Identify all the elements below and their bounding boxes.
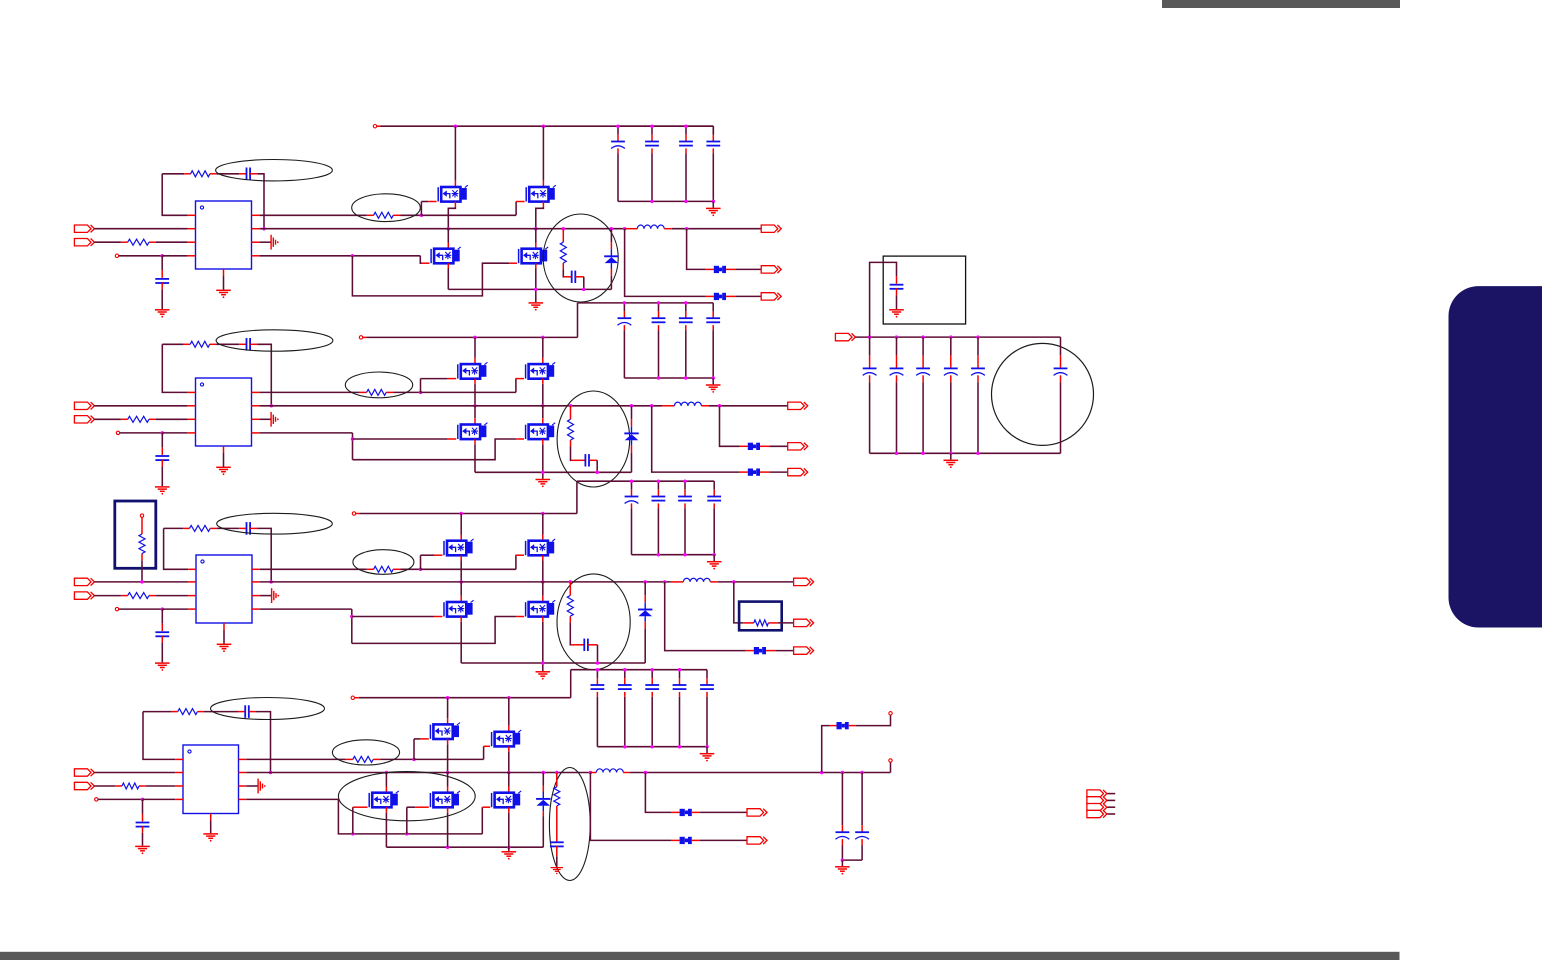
wire	[734, 582, 743, 623]
junction	[820, 771, 824, 775]
junction	[541, 336, 545, 340]
wire source Q33	[460, 617, 462, 664]
transistor Q42 (high-side)	[492, 730, 522, 746]
connector output 21	[788, 402, 808, 409]
junction	[596, 668, 600, 672]
transistor Q14 (low-side)	[519, 247, 549, 263]
capacitor C13 (snubber)	[572, 271, 576, 283]
wire	[571, 459, 585, 461]
wire	[353, 439, 517, 460]
wire	[583, 277, 585, 290]
wire	[623, 772, 630, 774]
transistor Q33 (low-side)	[444, 600, 474, 616]
wire	[922, 375, 924, 453]
wire	[156, 241, 188, 243]
wire	[380, 758, 414, 760]
junction	[650, 404, 654, 408]
wire gate Q32	[516, 555, 524, 569]
wire	[161, 636, 163, 663]
junction	[650, 668, 654, 672]
wire	[740, 445, 748, 447]
junction	[650, 124, 654, 128]
wire drain Q33	[460, 582, 462, 602]
junction	[685, 227, 689, 231]
wire	[162, 432, 187, 434]
wire	[712, 201, 714, 207]
junction	[630, 479, 634, 483]
resistor R35 (boxed)	[739, 602, 782, 631]
wire net UGATE3	[260, 568, 367, 570]
wire	[662, 405, 674, 407]
ground	[889, 310, 904, 318]
wire	[841, 839, 843, 860]
junction	[412, 758, 416, 762]
wire	[94, 785, 115, 787]
wire	[260, 595, 271, 597]
highlight ellipse (snubber)	[549, 768, 590, 881]
resistor R43 (gate)	[346, 756, 381, 762]
junction	[610, 227, 614, 231]
junction	[569, 404, 573, 408]
ground	[258, 779, 266, 794]
wire	[119, 608, 163, 610]
wire	[713, 503, 715, 554]
wire	[652, 406, 740, 472]
capacitor C56	[1060, 337, 1062, 368]
wire drain Q21	[474, 337, 476, 364]
wire	[143, 711, 171, 713]
junction	[447, 227, 451, 231]
junction	[562, 227, 566, 231]
big circle (highlight)	[992, 343, 1094, 445]
wire net PHASE2	[259, 405, 662, 407]
wire	[706, 747, 708, 753]
wire gate Q45	[482, 807, 490, 834]
transistor Q21 (high-side)	[458, 362, 488, 378]
wire	[569, 623, 572, 645]
wire gate Q11	[421, 202, 436, 216]
capacitor C2x3	[685, 303, 687, 318]
open node (fuse out)	[889, 712, 892, 715]
junction	[650, 200, 654, 204]
wire	[94, 405, 187, 407]
wire gate Q14	[509, 262, 517, 264]
diode D21	[624, 426, 638, 445]
wire	[778, 622, 794, 624]
connector	[835, 333, 855, 340]
wire	[564, 276, 572, 278]
wire gate Q44	[407, 807, 429, 834]
resistor R41 (feedback)	[171, 709, 203, 715]
wire	[259, 418, 270, 420]
highlight ellipse	[352, 194, 421, 222]
ground	[502, 852, 517, 860]
ground	[706, 385, 721, 393]
connector output 43	[747, 837, 767, 844]
ground	[835, 867, 850, 875]
wire	[712, 126, 714, 135]
open node EN1	[115, 254, 118, 257]
junction	[405, 832, 409, 836]
wire	[769, 471, 787, 473]
capacitor C44	[836, 832, 850, 839]
capacitor C3x4	[713, 481, 715, 496]
connector output 32	[794, 619, 814, 626]
wire	[223, 630, 225, 644]
junction	[542, 124, 546, 128]
ground	[551, 868, 563, 875]
ground	[529, 303, 544, 311]
capacitor C54	[950, 337, 952, 368]
junction	[684, 301, 688, 305]
wire	[706, 692, 708, 747]
ground	[707, 562, 722, 570]
wire gate Q34	[516, 616, 524, 618]
junction	[555, 771, 559, 775]
junction	[644, 771, 648, 775]
wire	[146, 785, 175, 787]
connector output 33	[794, 647, 814, 654]
wire source Q31	[460, 555, 462, 582]
wire	[896, 276, 898, 284]
ground	[155, 310, 170, 318]
wire	[651, 692, 653, 747]
wire	[562, 229, 564, 243]
wire source Q45	[508, 807, 510, 851]
wire bank rail	[571, 669, 707, 671]
capacitor C33 (snubber)	[584, 639, 588, 651]
capacitor C31 (feedback)	[239, 522, 257, 535]
wire gate Q31	[421, 555, 443, 569]
wire	[162, 255, 188, 257]
wire gate Q41	[414, 739, 429, 760]
wire	[720, 406, 740, 447]
junction	[683, 553, 687, 557]
transistor Q34 (low-side)	[526, 600, 556, 616]
junction	[949, 335, 953, 339]
junction	[596, 661, 600, 665]
transistor Q32 (high-side)	[526, 539, 556, 555]
wire net LGATE2	[259, 432, 352, 434]
capacitor C11 (feedback)	[239, 168, 257, 181]
wire	[394, 391, 421, 393]
wire	[590, 772, 596, 774]
wire	[726, 268, 735, 270]
capacitor C3x1	[631, 481, 633, 496]
junction	[684, 200, 688, 204]
wire drain Q13	[447, 229, 449, 249]
ground	[536, 672, 551, 680]
resistor R12 (input)	[121, 239, 156, 245]
wire	[94, 581, 188, 583]
highlight ellipse	[332, 740, 399, 765]
junction	[921, 452, 925, 456]
wire gate Q42	[484, 746, 490, 759]
wire	[352, 617, 517, 644]
connector input 1B	[74, 239, 94, 246]
capacitor C4x5	[706, 670, 708, 685]
wire FB loop left (block 2)	[162, 344, 187, 392]
junction	[541, 404, 545, 408]
capacitor C1x3	[685, 126, 687, 141]
connector output 23	[788, 468, 808, 475]
junction	[705, 745, 709, 749]
wire	[257, 344, 271, 406]
wire	[679, 692, 681, 747]
capacitor C23 (snubber)	[585, 454, 589, 466]
connector output 11	[761, 225, 781, 232]
inductor L31	[683, 578, 710, 582]
wire	[631, 503, 633, 554]
wire drain Q32	[542, 514, 544, 541]
wire	[1107, 793, 1115, 795]
wire	[161, 283, 163, 310]
junction	[616, 124, 620, 128]
wire	[352, 433, 354, 460]
junction	[459, 580, 463, 584]
wire	[890, 762, 892, 772]
wire gate Q33	[352, 616, 443, 618]
wire gate Q43	[353, 807, 368, 834]
wire	[542, 811, 544, 847]
wire	[841, 860, 843, 866]
junction	[385, 771, 389, 775]
wire	[692, 811, 700, 813]
wire	[246, 785, 257, 787]
wire	[950, 453, 952, 459]
junction	[269, 580, 273, 584]
wire	[570, 406, 572, 420]
junction	[841, 771, 845, 775]
connector input 3A	[74, 578, 94, 585]
wire net UGATE2	[259, 391, 360, 393]
wire	[861, 773, 863, 832]
connector input 4A	[74, 769, 94, 776]
capacitor C2x1	[623, 303, 625, 318]
wire	[1107, 799, 1115, 801]
wire	[217, 527, 240, 529]
connector input 2A	[74, 402, 94, 409]
capacitor C4x3	[651, 670, 653, 685]
resistor R13 (gate)	[367, 212, 401, 218]
bottom gray footer bar	[0, 952, 1400, 960]
wire net PHASE1	[259, 228, 625, 230]
junction	[678, 745, 682, 749]
wire	[120, 432, 163, 434]
wire	[94, 228, 187, 230]
wire drain Q24	[542, 406, 544, 425]
wire	[841, 773, 843, 832]
highlight ellipse (snubber)	[557, 391, 630, 487]
capacitor C32	[155, 632, 169, 636]
junction	[976, 335, 980, 339]
wire	[623, 325, 625, 378]
resistor R24 (snubber)	[568, 419, 574, 446]
wire source Q22	[542, 379, 544, 406]
ground	[155, 663, 170, 671]
wire	[204, 711, 238, 713]
wire	[712, 378, 714, 384]
wire net VOUT2	[709, 405, 788, 407]
inductor L11	[637, 225, 664, 229]
wire	[596, 692, 598, 747]
ground	[271, 412, 279, 427]
ground	[203, 834, 218, 842]
wire bank bottom rail	[624, 377, 713, 379]
highlight ellipse	[216, 330, 333, 351]
wire	[161, 460, 163, 487]
wire drain Q45	[508, 773, 510, 793]
junction	[454, 124, 458, 128]
wire	[829, 725, 837, 727]
fuse F43	[837, 722, 849, 729]
fuse F12	[714, 293, 726, 300]
junction	[663, 580, 667, 584]
open node EN4	[95, 798, 98, 801]
wire	[257, 174, 264, 229]
wire	[562, 269, 565, 276]
junction	[630, 404, 634, 408]
wire	[617, 148, 619, 201]
wire	[257, 528, 271, 582]
wire net PVCC4	[355, 697, 571, 699]
ground	[155, 487, 170, 495]
wire gate Q13	[420, 256, 429, 263]
wire	[625, 228, 637, 230]
wire	[98, 798, 142, 800]
wire	[421, 214, 516, 216]
wire	[631, 446, 633, 473]
transistor Q23 (low-side)	[458, 423, 488, 439]
junction	[542, 771, 546, 775]
capacitor C45	[855, 832, 869, 839]
capacitor C1x1	[617, 126, 619, 141]
wire	[223, 276, 225, 290]
wire	[684, 503, 686, 554]
wire	[842, 859, 862, 861]
junction	[541, 512, 545, 516]
junction	[895, 335, 899, 339]
wire	[700, 811, 747, 813]
IC U4 (PWM controller)	[175, 745, 246, 821]
wire	[706, 295, 714, 297]
wire net LGATE4	[246, 799, 482, 834]
wire source Q34	[542, 617, 544, 672]
highlight ellipse	[217, 513, 333, 534]
wire	[769, 445, 787, 447]
junction	[351, 437, 355, 441]
wire net VOUT1	[672, 228, 761, 230]
wire drain Q34	[542, 582, 544, 602]
junction	[262, 227, 266, 231]
wire	[143, 798, 176, 800]
wire net PHASE3	[260, 581, 671, 583]
wire	[210, 821, 212, 834]
wire	[542, 773, 544, 793]
wire net LGATE1	[259, 255, 420, 257]
transistor Q13 (low-side)	[431, 247, 461, 263]
highlight ellipse	[345, 372, 412, 398]
wire net PGND2	[475, 471, 632, 473]
wire	[259, 241, 270, 243]
junction	[541, 580, 545, 584]
wire	[1107, 813, 1115, 815]
junction	[732, 580, 736, 584]
wire	[766, 650, 775, 652]
wire	[700, 839, 747, 841]
wire	[162, 173, 184, 175]
wire drain Q42	[508, 698, 510, 732]
wire	[977, 375, 979, 453]
wire	[156, 418, 188, 420]
junction	[140, 580, 144, 584]
fuse F22	[748, 469, 760, 476]
wire	[701, 405, 709, 407]
wire	[671, 581, 683, 583]
transistor Q31 (high-side)	[444, 539, 474, 555]
wire drain Q22	[542, 337, 544, 364]
wire bank bottom rail	[632, 554, 715, 556]
resistor R32 (input)	[121, 593, 156, 599]
capacitor C2x4	[712, 303, 714, 318]
open node (in box)	[140, 514, 143, 517]
wire gate Q21	[421, 379, 457, 393]
wire source Q21	[474, 379, 476, 406]
wire	[713, 555, 715, 561]
fuse F32	[754, 647, 766, 654]
wire	[588, 644, 598, 646]
junction	[684, 376, 688, 380]
wire	[610, 269, 612, 290]
junction	[976, 452, 980, 456]
highlight ellipse	[353, 550, 414, 575]
transistor Q11 (high-side)	[438, 185, 468, 201]
wire	[161, 256, 163, 278]
capacitor C41 (feedback)	[238, 705, 256, 718]
connector input 3B	[74, 592, 94, 599]
wire	[1060, 375, 1062, 453]
capacitor C2x2	[658, 303, 660, 318]
wire net LGATE3	[260, 608, 352, 610]
transistor Q45 (low-side)	[492, 791, 522, 807]
junction	[459, 512, 463, 516]
capacitor C52	[896, 337, 898, 368]
open node PVCC2	[359, 336, 362, 339]
wire	[665, 582, 746, 651]
junction	[582, 288, 586, 292]
wire	[651, 148, 653, 201]
wire drain Q43	[385, 773, 387, 793]
wire	[216, 343, 239, 345]
capacitor C3x3	[684, 481, 686, 496]
ground	[536, 480, 551, 488]
connector output 31	[794, 578, 814, 585]
wire	[775, 650, 793, 652]
wire net PGND3	[461, 662, 645, 664]
junction	[868, 335, 872, 339]
junction	[860, 771, 864, 775]
junction	[161, 431, 165, 435]
wire	[162, 608, 188, 610]
wire FB loop left (block 1)	[162, 174, 188, 216]
capacitor C12	[155, 279, 169, 283]
wire source Q12	[536, 202, 544, 229]
wire source Q43	[385, 807, 387, 847]
blue side tab	[1449, 286, 1542, 627]
wire	[822, 726, 829, 773]
wire	[869, 375, 871, 453]
wire	[624, 692, 626, 747]
